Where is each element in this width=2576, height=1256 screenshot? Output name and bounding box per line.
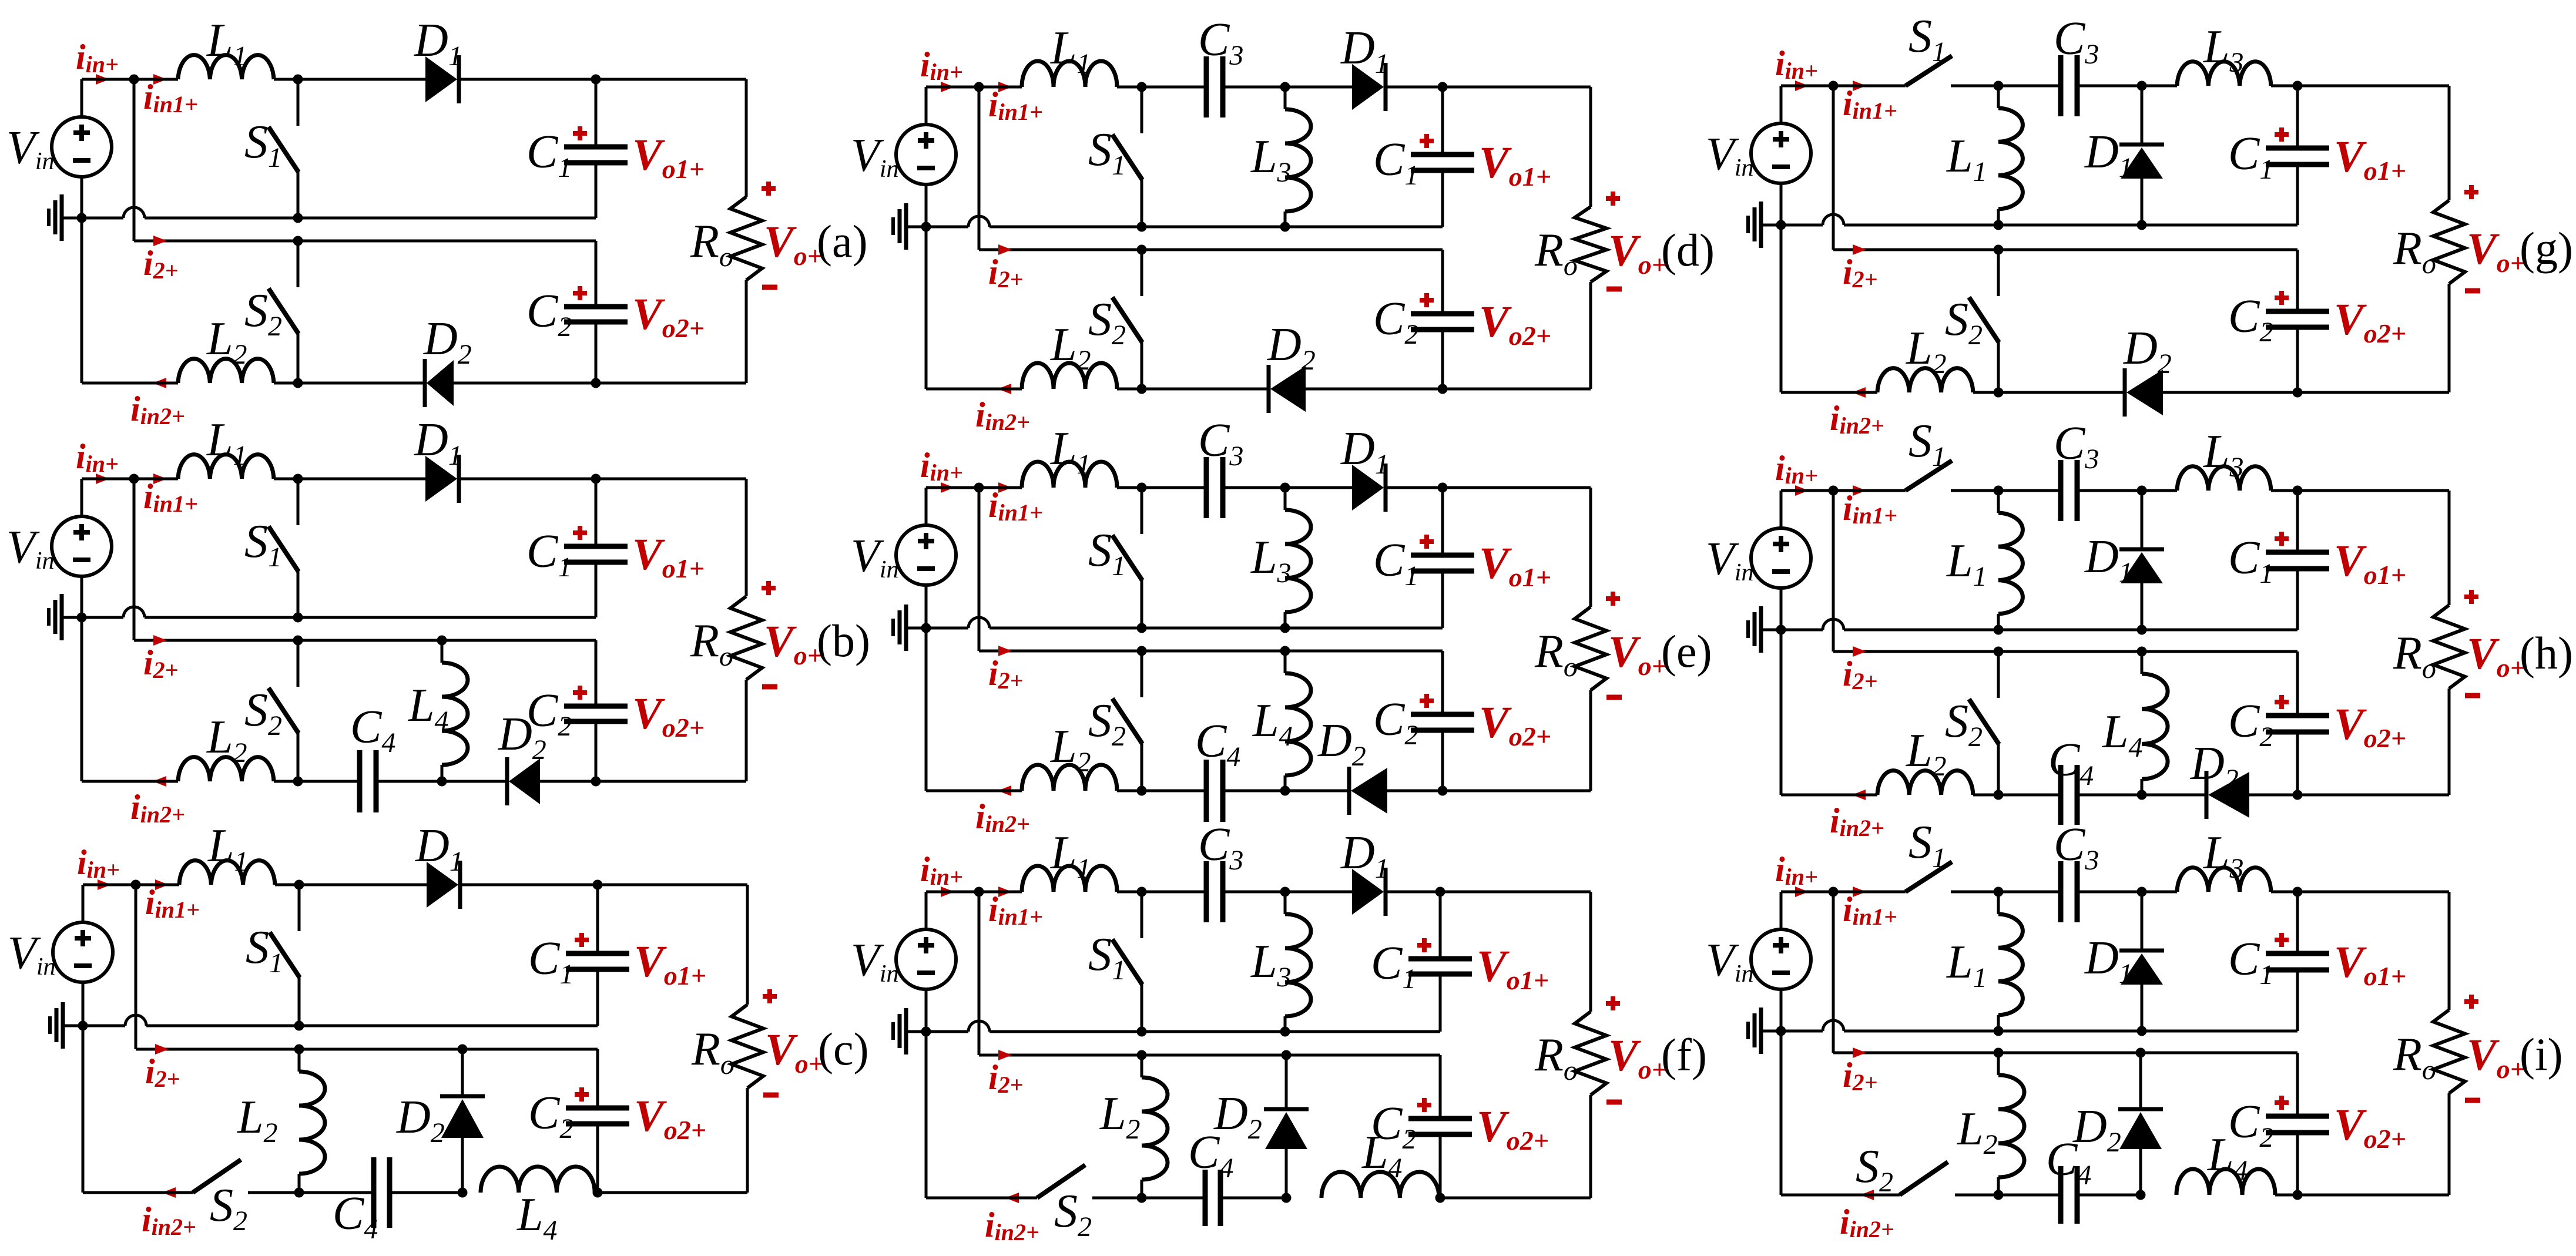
wire S2 to D2 (g) xyxy=(1998,391,2124,394)
wire L1 to D1 (c) xyxy=(275,884,427,886)
switch S2 (g) xyxy=(1994,245,2004,255)
wire bottom-left a xyxy=(82,382,178,385)
voltage source Vin (b) xyxy=(80,479,83,516)
node L4 bottom (b) xyxy=(437,777,447,787)
wire mid rail right (d) xyxy=(990,226,1443,229)
node input (h) xyxy=(1829,486,1839,496)
capacitor C2 (b) xyxy=(595,640,598,706)
wire mid rail left (b) xyxy=(82,616,123,619)
diode D1 (c) xyxy=(427,862,458,908)
hop over node rail (i) xyxy=(1823,1020,1844,1031)
hop over node rail (h) xyxy=(1823,619,1844,630)
node L4 top (h) xyxy=(2137,647,2147,657)
wire top-left b xyxy=(82,478,178,481)
diode D1 (a) xyxy=(425,56,457,102)
diode D1 vertical (h) xyxy=(2141,491,2144,550)
wire bottom-left h xyxy=(1781,794,1877,797)
wire L3 to C1 (h) xyxy=(2271,489,2449,492)
node C1 top (e) xyxy=(1438,483,1448,493)
inductor L3 (e) xyxy=(1284,488,1287,510)
wire right rail bottom (g) xyxy=(2448,284,2451,392)
wire D2 to C2 (b) xyxy=(540,780,596,783)
wire top-left g xyxy=(1781,85,1906,88)
diode D2 (a) xyxy=(427,360,454,406)
node C1 top (i) xyxy=(2293,887,2303,897)
wire i2 corner to right (e) xyxy=(979,650,1443,653)
wire L4 to C2 (c) xyxy=(595,1191,598,1194)
inductor L1 (h) xyxy=(1997,491,2000,513)
node input (g) xyxy=(1829,81,1839,91)
inductor L3 (g) xyxy=(2177,62,2271,86)
wire bottom-left d xyxy=(926,388,1022,391)
node L4 bottom (e) xyxy=(1280,786,1290,796)
node ground junction (h) xyxy=(1776,625,1786,635)
inductor L4 vertical (b) xyxy=(441,640,444,663)
switch S2 (e) xyxy=(1137,646,1147,656)
node C1 top (h) xyxy=(2293,486,2303,496)
wire S2 to D2 (a) xyxy=(298,382,424,385)
node input (d) xyxy=(974,82,984,92)
node input (f) xyxy=(974,887,984,897)
capacitor C2 (a) xyxy=(595,241,598,307)
wire mid rail right (b) xyxy=(145,616,596,619)
inductor L4 (f) xyxy=(1321,1172,1439,1198)
hop over node rail (f) xyxy=(968,1021,990,1032)
node D2 bottom (f) xyxy=(1282,1193,1292,1203)
wire mid rail left (c) xyxy=(83,1025,125,1027)
wire right rail top (a) xyxy=(745,79,748,197)
wire input node down (d) xyxy=(978,87,981,250)
resistor Ro (d) xyxy=(1575,207,1606,282)
wire C1 top (e) xyxy=(1443,486,1591,489)
wire input node down (h) xyxy=(1832,491,1835,651)
wire mid rail left (h) xyxy=(1781,629,1823,632)
node L1 top (i) xyxy=(1994,887,2004,897)
node L1 top (g) xyxy=(1994,81,2004,91)
wire L2 to S2 (e) xyxy=(1117,790,1142,792)
wire Vin down to bottom rail (h) xyxy=(1780,630,1783,795)
wire L4 to D2 (e) xyxy=(1285,790,1349,792)
wire C3 to D1 (f) xyxy=(1223,891,1352,894)
switch S1 (b) xyxy=(293,474,303,484)
wire Vin down to bottom rail (d) xyxy=(925,227,928,389)
wire S2 to C4 (h) xyxy=(1998,794,2061,797)
wire L4 to C2 (f) xyxy=(1439,1197,1440,1200)
inductor L4 (i) xyxy=(2176,1169,2275,1195)
inductor L1 (c) xyxy=(179,861,275,885)
diode D2 vertical (i) xyxy=(2139,1053,2142,1110)
wire mid rail left (f) xyxy=(926,1030,968,1033)
capacitor C1 (c) xyxy=(566,951,629,956)
wire C1 top (a) xyxy=(596,78,746,81)
wire S1 to L1 (i) xyxy=(1951,891,2061,894)
resistor Ro (e) xyxy=(1575,607,1606,690)
wire L1 to D1 (a) xyxy=(274,78,425,81)
svg-text:(e): (e) xyxy=(1661,626,1712,677)
wire bottom-left g xyxy=(1781,391,1877,394)
wire C3 to L3 (h) xyxy=(2077,489,2177,492)
node ground junction (b) xyxy=(77,613,87,623)
inductor L1 (d) xyxy=(1022,61,1117,87)
inductor L2 (e) xyxy=(1022,765,1117,791)
node ground junction (a) xyxy=(77,213,87,223)
wire D1 to C1 node (b) xyxy=(460,478,596,481)
wire input node down (c) xyxy=(135,885,137,1049)
wire D2 to C2 (h) xyxy=(2249,794,2297,797)
capacitor C2 (h) xyxy=(2296,651,2299,716)
node S1 bottom (a) xyxy=(293,213,303,223)
inductor L3 (d) xyxy=(1284,87,1287,109)
wire L2 to S2 (b) xyxy=(274,780,298,783)
capacitor C2 (i) xyxy=(2296,1053,2299,1116)
node D1 top (h) xyxy=(2137,486,2147,496)
wire mid rail right (f) xyxy=(990,1030,1440,1033)
inductor L2 vertical (i) xyxy=(1997,1053,2000,1075)
wire L4 to D2 (b) xyxy=(442,780,505,783)
diode D2 (h) xyxy=(2208,772,2249,818)
node C2 bottom (d) xyxy=(1438,384,1448,394)
wire D1 to C1 node (c) xyxy=(461,884,598,886)
ground (b) xyxy=(62,616,82,619)
capacitor C3 (e) xyxy=(1204,457,1209,518)
wire C2-to-Ro bottom (e) xyxy=(1443,790,1591,792)
wire top-left c xyxy=(83,884,179,886)
hop over node rail (g) xyxy=(1823,214,1844,225)
capacitor C4 (b) xyxy=(357,750,363,812)
node D1 bottom (h) xyxy=(2137,625,2147,635)
ground (c) xyxy=(63,1025,83,1027)
node C2 bottom (c) xyxy=(593,1188,603,1198)
wire Vin down to bottom rail (i) xyxy=(1780,1031,1783,1195)
switch S1 (f) xyxy=(1137,887,1147,897)
wire C1 top (c) xyxy=(598,884,747,886)
node L2 bottom (i) xyxy=(1994,1190,2004,1200)
wire right rail bottom (a) xyxy=(745,280,748,383)
wire C4 to D2 (c) xyxy=(390,1191,462,1194)
wire right rail bottom (b) xyxy=(745,680,748,781)
diode D2 (g) xyxy=(2126,370,2163,415)
node L1 bottom (h) xyxy=(1994,625,2004,635)
wire C1 bottom (e) xyxy=(1441,571,1444,628)
wire i2 corner to right (a) xyxy=(134,240,596,243)
inductor L3 (h) xyxy=(2177,466,2271,491)
wire top-left a xyxy=(82,78,178,81)
wire C3 to L3 (g) xyxy=(2077,85,2177,88)
wire S1 to L1 (h) xyxy=(1951,489,2061,492)
node L3 top (d) xyxy=(1280,82,1290,92)
wire L1 to C3 (e) xyxy=(1117,486,1206,489)
wire right rail bottom (h) xyxy=(2448,689,2451,795)
wire right rail bottom (d) xyxy=(1589,282,1592,389)
wire bottom-left f xyxy=(926,1197,1037,1200)
node L3 top (f) xyxy=(1280,887,1290,897)
voltage source Vin (f) xyxy=(925,892,928,929)
capacitor C1 (f) xyxy=(1408,956,1472,962)
node S1 bottom (f) xyxy=(1137,1027,1147,1037)
wire L2 to C4 (i) xyxy=(1998,1194,2061,1197)
inductor L3 (f) xyxy=(1284,892,1287,914)
node C1 top (d) xyxy=(1438,82,1448,92)
node C2 bottom (e) xyxy=(1438,786,1448,796)
wire right rail top (b) xyxy=(745,479,748,596)
resistor Ro (f) xyxy=(1575,1012,1606,1095)
switch S2 (a) xyxy=(293,236,303,246)
wire bottom-left e xyxy=(926,790,1022,792)
node S1 bottom (c) xyxy=(294,1021,304,1031)
node C2 bottom (g) xyxy=(2293,388,2303,398)
ground (e) xyxy=(906,627,926,630)
switch S2 (h) xyxy=(1994,647,2004,657)
wire top-left h xyxy=(1781,489,1906,492)
resistor Ro (a) xyxy=(730,197,762,280)
capacitor C3 (f) xyxy=(1204,861,1209,922)
capacitor C2 (g) xyxy=(2296,250,2299,311)
wire L3 to C1 (i) xyxy=(2271,891,2449,894)
wire D1 to C1 node (d) xyxy=(1387,86,1443,89)
wire C2-to-Ro bottom (f) xyxy=(1440,1197,1591,1200)
wire input node down (i) xyxy=(1832,892,1835,1053)
node L1 bottom (g) xyxy=(1994,220,2004,230)
wire C1 bottom (b) xyxy=(595,562,598,617)
wire input node down (f) xyxy=(978,892,981,1055)
switch S1 (d) xyxy=(1137,82,1147,92)
switch S2 (d) xyxy=(1137,245,1147,255)
wire right rail bottom (i) xyxy=(2448,1093,2451,1195)
ground (f) xyxy=(906,1030,926,1033)
capacitor C1 (h) xyxy=(2296,491,2299,552)
hop over node rail (c) xyxy=(125,1015,146,1026)
diode D1 (e) xyxy=(1352,465,1384,511)
wire top-left e xyxy=(926,486,1022,489)
wire D2 to C2 (a) xyxy=(454,382,596,385)
node D2 bottom (c) xyxy=(458,1188,468,1198)
svg-text:(d): (d) xyxy=(1661,224,1715,276)
wire right rail bottom (c) xyxy=(746,1088,749,1193)
inductor L4 vertical (e) xyxy=(1284,651,1287,673)
svg-text:(i): (i) xyxy=(2520,1029,2563,1080)
wire bottom-left c xyxy=(83,1191,193,1194)
node L1 top (h) xyxy=(1994,486,2004,496)
node ground junction (c) xyxy=(78,1021,88,1031)
wire i2 corner to right (d) xyxy=(979,248,1443,251)
node L2 top (i) xyxy=(1994,1048,2004,1058)
wire D2 to C2 (d) xyxy=(1306,388,1443,391)
inductor L1 (a) xyxy=(178,55,274,79)
wire input node down (g) xyxy=(1832,86,1835,250)
capacitor C3 (d) xyxy=(1204,56,1209,117)
wire right rail top (g) xyxy=(2448,86,2451,200)
wire L4 to D2 (h) xyxy=(2142,794,2206,797)
node C2 bottom (b) xyxy=(591,777,601,787)
wire L2 to S2 (a) xyxy=(274,382,298,385)
voltage source Vin (a) xyxy=(80,79,83,117)
node S2 bottom (a) xyxy=(293,378,303,388)
diode D1 (d) xyxy=(1352,64,1384,110)
wire right rail top (d) xyxy=(1589,87,1592,207)
wire C2-to-Ro bottom (b) xyxy=(596,780,746,783)
wire mid rail left (d) xyxy=(926,226,968,229)
diode D2 (e) xyxy=(1351,768,1387,814)
wire C1 top (b) xyxy=(596,478,746,481)
wire S2 to C4 (e) xyxy=(1142,790,1206,792)
wire Vin down to bottom rail (g) xyxy=(1780,225,1783,392)
capacitor C1 (e) xyxy=(1411,553,1474,558)
switch S1 (h) xyxy=(1906,461,1952,491)
wire mid rail right (a) xyxy=(145,217,596,220)
switch S1 (a) xyxy=(293,75,303,85)
wire input node down (b) xyxy=(133,479,136,640)
capacitor C3 (i) xyxy=(2058,861,2064,922)
node D2 top (c) xyxy=(458,1045,468,1054)
resistor Ro (b) xyxy=(730,596,762,680)
voltage source Vin (d) xyxy=(925,87,928,125)
capacitor C4 (e) xyxy=(1204,760,1209,822)
inductor L2 (b) xyxy=(178,757,274,781)
wire mid rail right (c) xyxy=(146,1025,598,1027)
wire S2 to L2 (f) xyxy=(1092,1197,1142,1200)
node L3 bottom (f) xyxy=(1280,1027,1290,1037)
node S1 bottom (e) xyxy=(1137,623,1147,633)
wire S2 to L2 (i) xyxy=(1955,1194,1998,1197)
capacitor C4 (h) xyxy=(2058,765,2064,825)
inductor L1 (g) xyxy=(1997,86,2000,108)
wire C1 bottom (c) xyxy=(596,969,599,1026)
node C1 top (b) xyxy=(591,474,601,484)
ground (a) xyxy=(62,217,82,220)
wire right rail top (h) xyxy=(2448,491,2451,605)
wire L3 to C1 (g) xyxy=(2271,85,2449,88)
svg-text:(b): (b) xyxy=(817,615,870,666)
node C1 top (f) xyxy=(1435,887,1445,897)
node input (c) xyxy=(131,880,141,890)
resistor Ro (i) xyxy=(2433,1010,2465,1093)
wire top-left f xyxy=(926,891,1022,894)
svg-text:(c): (c) xyxy=(818,1023,869,1074)
node ground junction (f) xyxy=(921,1027,931,1037)
node L3 bottom (e) xyxy=(1280,623,1290,633)
inductor L1 (b) xyxy=(178,455,274,479)
capacitor C2 (e) xyxy=(1441,651,1444,714)
hop over node rail (e) xyxy=(968,617,990,628)
node C1 top (c) xyxy=(593,880,603,890)
capacitor C1 (g) xyxy=(2296,86,2299,148)
ground (d) xyxy=(906,226,926,229)
wire i2 corner to right (i) xyxy=(1833,1052,2297,1054)
diode D1 (b) xyxy=(425,456,457,502)
wire mid rail left (i) xyxy=(1781,1030,1823,1033)
wire S2 to D2 (d) xyxy=(1142,388,1268,391)
wire top-left d xyxy=(926,86,1022,89)
switch S1 (c) xyxy=(294,880,304,890)
node D2 top (f) xyxy=(1282,1050,1292,1060)
svg-text:(a): (a) xyxy=(817,216,868,267)
wire right rail top (c) xyxy=(746,885,749,1005)
wire D2 to C2 (e) xyxy=(1387,790,1443,792)
inductor L4 (c) xyxy=(481,1167,595,1193)
wire bottom-left b xyxy=(82,780,178,783)
wire mid rail left (e) xyxy=(926,627,968,630)
voltage source Vin (e) xyxy=(925,488,928,525)
node C2 bottom (a) xyxy=(591,378,601,388)
diode D1 vertical (g) xyxy=(2141,86,2144,145)
switch S1 (e) xyxy=(1137,483,1147,493)
wire mid rail right (h) xyxy=(1844,629,2297,632)
wire mid rail right (g) xyxy=(1844,224,2297,227)
wire C2-to-Ro bottom (i) xyxy=(2297,1194,2449,1197)
node input (b) xyxy=(129,474,139,484)
node ground junction (i) xyxy=(1776,1026,1786,1036)
node S2 bottom (e) xyxy=(1137,786,1147,796)
svg-text:(h): (h) xyxy=(2520,627,2573,679)
node S2 bottom (b) xyxy=(293,777,303,787)
inductor L2 (h) xyxy=(1877,771,1973,795)
wire L1 to C3 (d) xyxy=(1117,86,1206,89)
capacitor C1 (a) xyxy=(564,145,628,150)
capacitor C3 (h) xyxy=(2058,460,2064,521)
ground (h) xyxy=(1761,629,1781,632)
wire D1 to C1 node (f) xyxy=(1387,891,1440,894)
wire mid rail right (i) xyxy=(1844,1030,2297,1033)
node C1 top (a) xyxy=(591,75,601,85)
node L3 top (e) xyxy=(1280,483,1290,493)
inductor L1 (i) xyxy=(1997,892,2000,914)
node input (a) xyxy=(129,75,139,85)
node L2 top (c) xyxy=(294,1045,304,1054)
switch S2 horizontal (f) xyxy=(1037,1165,1085,1198)
diode D2 vertical (f) xyxy=(1285,1055,1288,1110)
wire Vin down to bottom rail (b) xyxy=(80,617,83,781)
node D2 top (i) xyxy=(2136,1048,2146,1058)
svg-text:(f): (f) xyxy=(1661,1029,1707,1080)
wire L4 to C2 (i) xyxy=(2275,1194,2297,1197)
hop over node rail (d) xyxy=(968,216,990,227)
wire C1 top (d) xyxy=(1443,86,1591,89)
inductor L2 (d) xyxy=(1022,363,1117,389)
capacitor C4 (c) xyxy=(371,1157,377,1228)
node S2 bottom (d) xyxy=(1137,384,1147,394)
node L1 bottom (i) xyxy=(1994,1026,2004,1036)
node L4 bottom (h) xyxy=(2137,790,2147,800)
wire L2 to C4 (c) xyxy=(299,1191,374,1194)
wire Vin down to bottom rail (e) xyxy=(925,628,928,791)
wire C4 to L4 (b) xyxy=(376,780,442,783)
wire L2 to C4 (f) xyxy=(1142,1197,1205,1200)
voltage source Vin (c) xyxy=(82,885,85,922)
wire L2 to S2 (g) xyxy=(1973,391,1998,394)
capacitor C4 (f) xyxy=(1203,1170,1208,1226)
node input (i) xyxy=(1829,887,1839,897)
node D1 top (g) xyxy=(2137,81,2147,91)
diode D2 (b) xyxy=(509,758,540,804)
wire S2 to C4 (b) xyxy=(298,780,360,783)
node L4 top (e) xyxy=(1280,646,1290,656)
wire C1 bottom (h) xyxy=(2296,569,2299,630)
wire S1 to L1 (g) xyxy=(1951,85,2061,88)
wire mid rail right (e) xyxy=(990,627,1443,630)
inductor L2 vertical (f) xyxy=(1141,1055,1143,1077)
wire input node down (e) xyxy=(978,488,981,651)
wire C1 bottom (d) xyxy=(1441,170,1444,227)
wire C2-to-Ro bottom (g) xyxy=(2297,391,2449,394)
wire C1 bottom (f) xyxy=(1439,974,1442,1032)
node C1 top (g) xyxy=(2293,81,2303,91)
wire C4 to D2 (i) xyxy=(2077,1194,2141,1197)
node L2 bottom (c) xyxy=(294,1188,304,1198)
ground (i) xyxy=(1761,1030,1781,1033)
wire bottom-left i xyxy=(1781,1194,1900,1197)
node D1 top (i) xyxy=(2137,887,2147,897)
wire C2-to-Ro bottom (c) xyxy=(598,1191,747,1194)
